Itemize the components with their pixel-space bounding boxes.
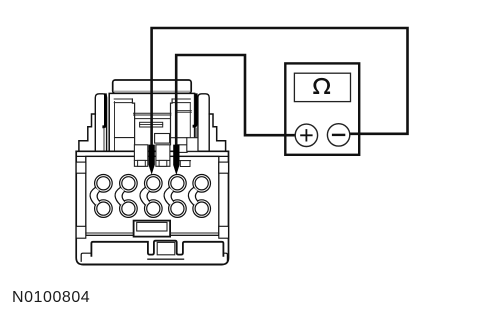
skirt right ledge (223, 253, 227, 261)
left ear shadow (104, 95, 106, 127)
wire from left probe to minus terminal (152, 28, 408, 146)
latch inner tab (140, 122, 163, 127)
inner wall left (114, 102, 116, 151)
pin 3 bottom outer ring (145, 200, 163, 218)
center platform line left (115, 137, 135, 139)
pin 4 bottom inner ring (171, 202, 184, 215)
pin 4 waist blank (164, 188, 174, 205)
right mounting ear (198, 94, 209, 152)
connector main body (76, 151, 228, 264)
pin 5 waist inner edge (195, 191, 197, 201)
pin 3 waist inner edge (147, 191, 149, 201)
skirt channel (91, 241, 223, 256)
pin 5 waist blank (188, 188, 198, 205)
terminal box right (177, 145, 187, 153)
pin 5 bottom inner ring (195, 202, 208, 215)
inner wall right (189, 103, 191, 138)
skirt left ledge (81, 253, 91, 261)
wire from right probe to plus terminal (176, 55, 296, 146)
pin 1 waist outer edge (90, 188, 95, 205)
right shelf line (178, 160, 190, 162)
pin 1 top inner ring (97, 177, 110, 190)
pin 5 top outer ring (193, 175, 211, 193)
terminal box middle (156, 145, 170, 167)
skirt inner square (157, 242, 175, 254)
pin 5 bottom outer ring (193, 200, 211, 218)
connector upper housing (109, 93, 194, 151)
pin 2 top inner ring (122, 177, 135, 190)
skirt tray line (148, 258, 184, 260)
left shoulder steps (79, 114, 95, 151)
pin 2 bottom inner ring (122, 202, 135, 215)
plus terminal (295, 124, 317, 146)
pin 1 waist inner edge (97, 191, 99, 201)
right shoulder steps (209, 114, 225, 151)
face bottom lines (86, 232, 219, 234)
lock tab (134, 221, 171, 237)
connector face (86, 156, 219, 235)
pin 1 bottom outer ring (95, 200, 113, 218)
pin 4 top outer ring (169, 175, 187, 193)
side bridge bottom-right (219, 226, 229, 238)
pin 1 top outer ring (95, 175, 113, 193)
connector top cap (113, 80, 192, 93)
pin 3 top outer ring (145, 175, 163, 193)
terminal box left (134, 145, 147, 167)
pin 3 waist blank (140, 188, 150, 205)
pin 5 waist outer edge (188, 188, 193, 205)
tall box right (187, 138, 198, 152)
pin 1 waist blank (90, 188, 100, 205)
latch left bar (114, 99, 132, 103)
pin 4 top inner ring (171, 177, 184, 190)
left probe body (149, 145, 155, 175)
center stem box (155, 134, 170, 144)
pin 3 waist outer edge (140, 188, 145, 205)
ear slot line left (103, 128, 105, 151)
pin 5 top inner ring (195, 177, 208, 190)
right elbow lines (178, 111, 191, 113)
pin 1 bottom inner ring (97, 202, 110, 215)
pin 2 top outer ring (120, 175, 138, 193)
pin 4 waist inner edge (171, 191, 173, 201)
pin 2 waist inner edge (122, 191, 124, 201)
latch right bar (172, 99, 190, 103)
ear slot line right (195, 128, 197, 151)
left mounting ear (95, 94, 106, 152)
side bridge bottom-left (76, 226, 86, 238)
pin 4 waist outer edge (164, 188, 169, 205)
ohmmeter box U1 (285, 63, 359, 154)
pin 2 waist outer edge (115, 188, 120, 205)
center platform line right (171, 137, 187, 139)
pin 3 top inner ring (147, 177, 160, 190)
latch cavity (132, 99, 172, 145)
body top band line (76, 155, 228, 157)
face foot right (180, 161, 190, 167)
pin 2 bottom outer ring (120, 200, 138, 218)
body bottom emphasis line (82, 263, 223, 265)
side bridge top-right (219, 162, 229, 173)
pins group: 5 columns of double-ring pairs (90, 175, 210, 218)
right ear shadow (194, 95, 196, 126)
right probe body (173, 145, 179, 175)
ohm symbol (313, 78, 330, 94)
pin 2 waist blank (115, 188, 125, 205)
caption N0100804 (12, 289, 90, 307)
side bridge top-left (76, 162, 86, 173)
pin 3 bottom inner ring (147, 202, 160, 215)
ohmmeter display (294, 73, 350, 101)
pin 4 bottom outer ring (169, 200, 187, 218)
minus terminal (327, 124, 349, 146)
